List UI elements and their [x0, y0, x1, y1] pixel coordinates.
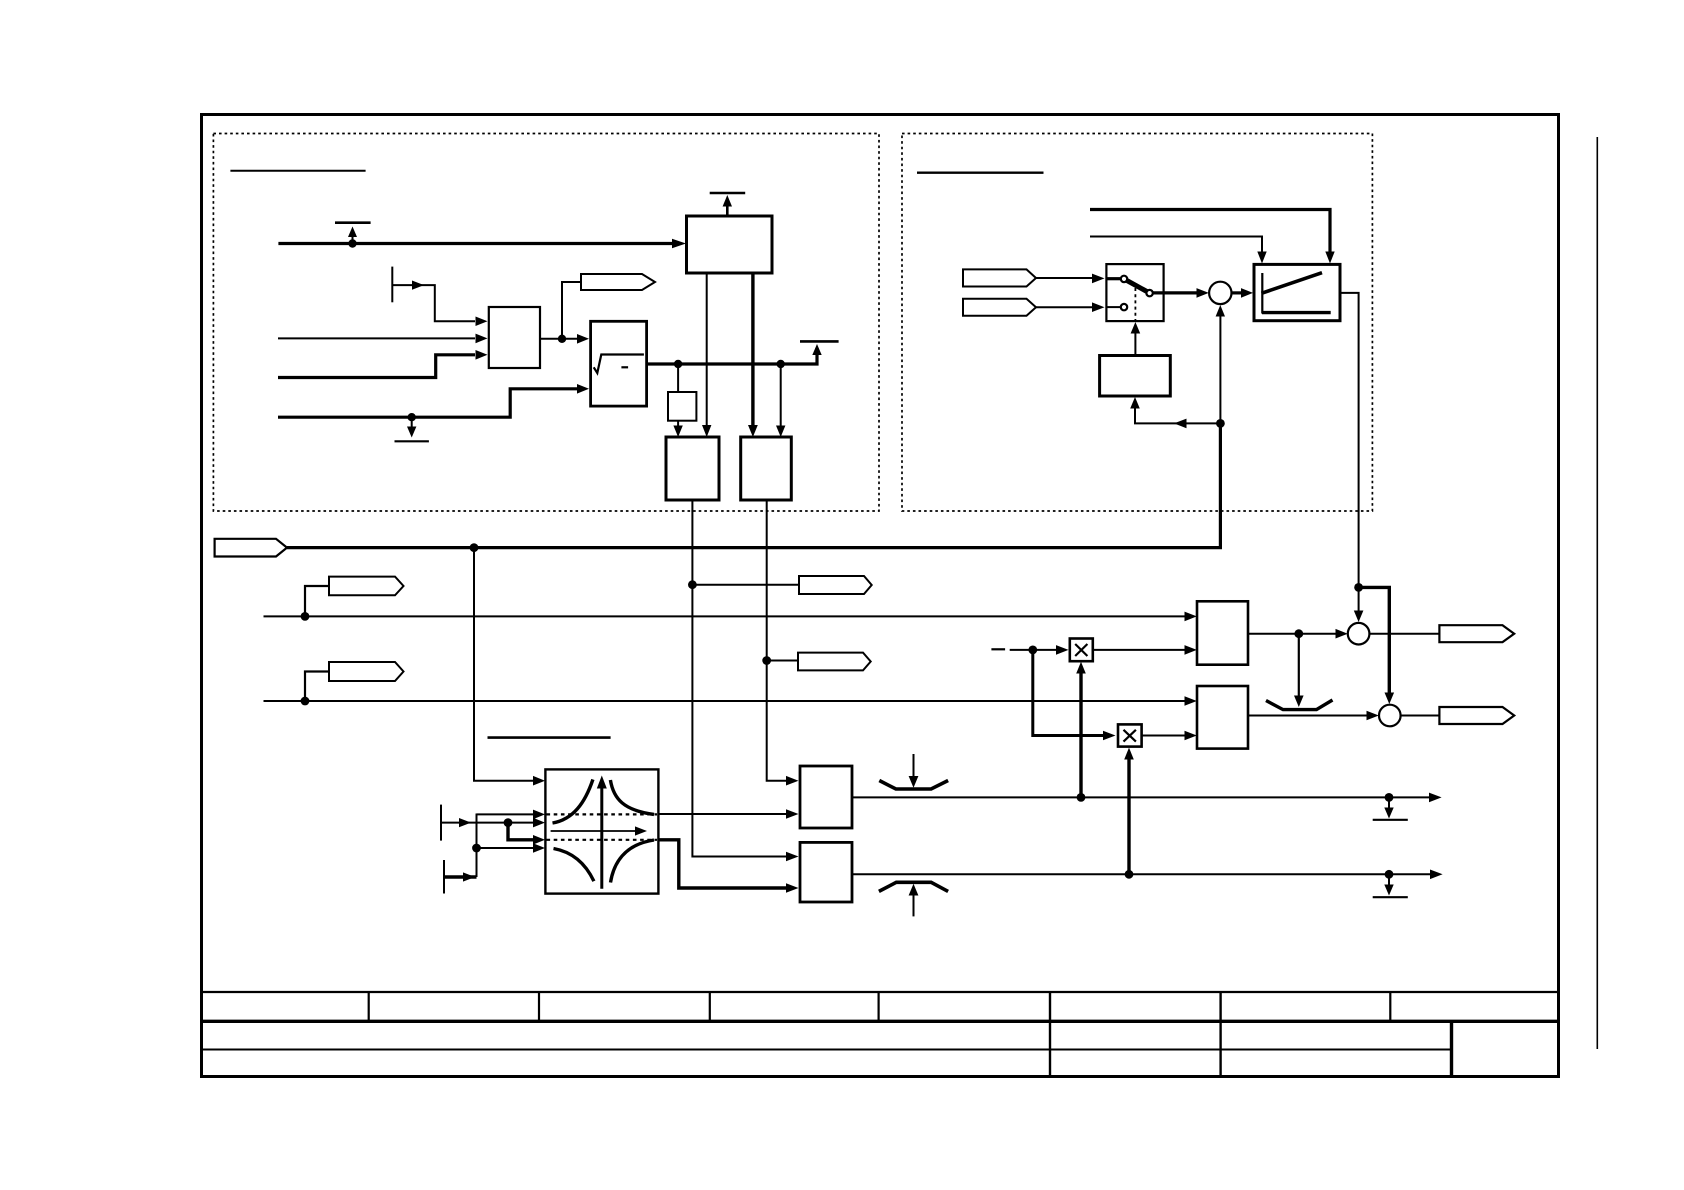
input flag FI1 — [963, 269, 1036, 286]
node minus tap — [1028, 646, 1037, 655]
wire to connector flag up — [562, 282, 581, 339]
node F3 on bus3 — [301, 697, 310, 706]
wire riser to CB fourth input — [477, 847, 534, 849]
input flag FI2 — [963, 299, 1036, 316]
DASHED FUNCTION GROUP FRAMES — [213, 134, 1372, 512]
block A output wire — [1248, 633, 1336, 635]
switch wire in upper — [1106, 277, 1120, 280]
node M1 tap — [688, 580, 697, 589]
TOP-LEFT GROUP — [230, 171, 838, 500]
node X1 feed — [1077, 793, 1086, 802]
title block top rule — [200, 991, 1558, 993]
node on input-4 — [408, 413, 416, 421]
wire M1 down — [692, 500, 786, 857]
CB vertical axis — [600, 787, 603, 889]
U1 top parameter bar — [710, 192, 746, 195]
UB output wire — [852, 796, 1429, 798]
input flag F1 — [215, 539, 287, 557]
right margin line — [1596, 137, 1598, 1049]
binector terminal bar b1 — [391, 267, 393, 303]
tap arrow down to clamp — [1298, 634, 1300, 697]
CB output lower — [658, 840, 786, 888]
wire S1 to SQ — [540, 338, 577, 340]
node SQ out 2 — [777, 360, 785, 368]
X2 bottom feed — [1127, 758, 1130, 874]
dashed group frame left — [213, 134, 879, 512]
switch box SW — [1106, 264, 1163, 321]
UB terminator bar — [1373, 819, 1408, 821]
TITLE-BLOCK — [200, 992, 1558, 1077]
node on signal-A — [348, 239, 356, 247]
wire SC2 to FO1 — [1369, 633, 1439, 635]
output flag FO1 — [1439, 625, 1514, 642]
switch lever — [1127, 281, 1147, 292]
node ramp feed — [1354, 583, 1363, 592]
wire switch to summer SC1 — [1153, 291, 1197, 294]
wire node2 to M2 — [780, 364, 782, 426]
wire K to M1 — [677, 421, 679, 426]
wire tap down to X2 — [1033, 650, 1103, 736]
LIMIT BLOCKS UB LB — [800, 754, 1443, 916]
OUTPUT STAGE — [1197, 583, 1514, 749]
block UB — [800, 766, 852, 828]
node riser lower — [472, 844, 481, 853]
zero terminal bar — [395, 440, 429, 442]
column separators full height — [1049, 992, 1051, 1077]
CHARACTERISTIC CURVE BLOCK — [441, 738, 799, 894]
multiplier X1 — [1070, 639, 1093, 662]
wire ramp to SC3 — [1359, 587, 1390, 693]
wire bus1 tap down to CB — [474, 548, 533, 781]
node F2 on bus2 — [301, 612, 310, 621]
node LB term — [1385, 870, 1394, 879]
CB hyperbola lower-left — [554, 849, 594, 882]
CB hyperbola upper-left — [553, 779, 593, 823]
wire FI1 to switch — [1036, 277, 1092, 279]
block S1 — [489, 307, 540, 368]
node SQ out 1 — [674, 360, 682, 368]
heading underline left group — [230, 170, 365, 172]
LB output wire — [852, 873, 1430, 875]
LB limiter arrow — [913, 894, 915, 916]
CB dashed level upper — [547, 813, 658, 815]
SC1 bottom input arrow — [1216, 305, 1225, 317]
switch contact upper — [1121, 276, 1127, 282]
SB bottom input wire — [1135, 407, 1220, 423]
node S1 output — [558, 335, 566, 343]
wire U1 to M1 — [706, 273, 708, 426]
revision cell separator — [1450, 1021, 1453, 1076]
zero terminal arrow down — [411, 417, 413, 428]
block U1 — [687, 216, 773, 273]
block B output wire — [1248, 715, 1367, 717]
block K small — [668, 392, 696, 421]
U1 top output arrow — [726, 204, 729, 216]
UB limiter clamp — [879, 781, 948, 790]
wire ramp to SC2 — [1358, 587, 1360, 611]
switch contact lower — [1121, 304, 1127, 310]
parameter bar TB1 — [440, 805, 442, 841]
output flag FO2 — [1439, 707, 1514, 724]
wire SC1 to RB — [1232, 291, 1242, 294]
switch contact common — [1146, 290, 1152, 296]
node X2 feed — [1125, 870, 1134, 879]
summer SC3 — [1379, 705, 1401, 727]
wire bus1 up to SC1 — [1219, 317, 1221, 424]
LB limiter clamp — [879, 882, 948, 891]
block SB selector — [1100, 356, 1171, 397]
wire SQ output — [647, 348, 817, 364]
tap arrow up — [352, 235, 354, 244]
wire branch down to third input — [508, 823, 534, 840]
wire riser to CB top level — [477, 813, 534, 815]
wire TB2 — [444, 875, 477, 878]
parameter tap bar above signal-A — [335, 221, 371, 224]
wire input-3 — [278, 355, 475, 378]
sqrt glyph — [594, 355, 644, 374]
wire F2 drop — [305, 586, 329, 616]
CB hyperbola upper-right — [610, 780, 654, 814]
LB terminator arrow down — [1388, 874, 1390, 886]
wire to flag F4 — [692, 584, 799, 586]
wire into X1 — [1010, 649, 1056, 651]
node M2 tap — [762, 656, 771, 665]
ramp-function generator RB — [1254, 264, 1340, 320]
RB y-axis — [1261, 273, 1263, 314]
UB limiter arrow — [913, 754, 915, 777]
wire RB output down — [1340, 293, 1359, 588]
dashed group frame right — [902, 134, 1372, 512]
summer SC1 — [1209, 282, 1231, 304]
bus wire 1 — [287, 423, 1220, 547]
PAGE-FRAME — [202, 115, 1598, 1077]
title block thin rule — [200, 1049, 1452, 1051]
switch wire in lower — [1106, 306, 1120, 308]
sheet border — [202, 115, 1559, 1077]
CB input arrows — [533, 810, 545, 820]
parameter wire P1 — [1090, 210, 1330, 253]
wire node to K — [677, 364, 679, 392]
wire M2 down — [767, 500, 786, 781]
node UB term — [1385, 793, 1394, 802]
connector flag r-display — [581, 274, 655, 290]
TOP-RIGHT GROUP — [917, 173, 1359, 588]
wire SC3 to FO2 — [1401, 715, 1440, 717]
block M1 — [666, 437, 719, 500]
riser wire — [476, 814, 478, 878]
connector flag F5 — [798, 653, 871, 671]
RB ramp line — [1262, 273, 1323, 294]
wire input-4 — [278, 389, 577, 417]
heading underline right group — [917, 171, 1044, 173]
node A-output tap — [1294, 629, 1303, 638]
block CB — [545, 769, 658, 893]
parameter bar SQ output — [800, 340, 839, 343]
CB output upper — [658, 813, 786, 815]
LB terminator bar — [1373, 896, 1408, 898]
parameter bar TB2 — [443, 860, 445, 894]
wire FI2 to switch — [1036, 306, 1092, 308]
wire b1 to S1 — [392, 285, 475, 321]
heading underline curve block — [488, 736, 611, 739]
block B — [1197, 686, 1248, 749]
UB terminator arrow down — [1388, 797, 1390, 809]
bus wire 3 — [264, 700, 1185, 702]
CB hyperbola lower-right — [611, 840, 655, 883]
CB horizontal axis — [551, 830, 636, 832]
block SQ square-root — [591, 321, 647, 406]
wire TB1 to CB — [441, 822, 534, 824]
parameter wire P2 — [1090, 237, 1262, 253]
summer SC2 — [1348, 623, 1370, 645]
block LB — [800, 842, 852, 902]
bus wire 2 — [264, 615, 1185, 617]
X1 bottom feed — [1079, 672, 1082, 797]
X1 output wire — [1093, 649, 1185, 651]
title block thick rule — [200, 1020, 1558, 1023]
wire U1 to M2 — [751, 273, 754, 426]
node SC1 feed — [1216, 419, 1225, 428]
switch select dashed line — [1134, 288, 1136, 321]
node branch — [504, 818, 513, 827]
connector flag F4 — [799, 576, 872, 594]
wire to flag F5 — [767, 660, 798, 662]
CB dashed level lower — [547, 839, 658, 841]
clamp symbol mid — [1266, 700, 1333, 710]
arrow into U1 — [672, 239, 686, 249]
wire F3 drop — [305, 672, 329, 702]
MULTIPLIER STAGE — [991, 639, 1196, 875]
node bus1 tap — [470, 543, 479, 552]
multiplier X2 — [1118, 724, 1142, 746]
minus glyph — [621, 366, 628, 368]
wire input-2 — [278, 337, 475, 339]
connector flag F2 — [329, 577, 404, 596]
block A — [1197, 601, 1248, 664]
minus sign — [991, 648, 1005, 650]
block M2 — [741, 437, 792, 500]
arrow up to parameter bar — [812, 344, 821, 355]
MAIN BUS WIRES — [215, 317, 1225, 862]
connector flag F3 — [329, 662, 404, 681]
RB x-axis — [1262, 311, 1331, 314]
wire signal-A — [278, 242, 673, 245]
column separators row1 — [368, 992, 370, 1021]
switch select arrow from below — [1134, 332, 1136, 356]
X2 output wire — [1142, 735, 1185, 737]
